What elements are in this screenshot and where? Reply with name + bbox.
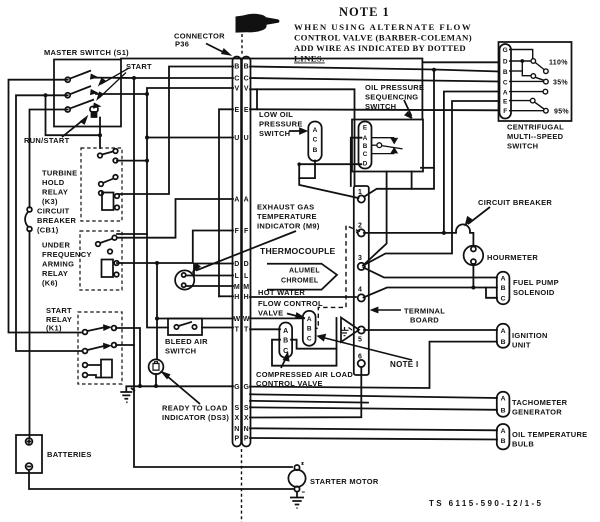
hourmeter xyxy=(464,246,484,266)
wire K1 contact to G wire ground xyxy=(116,328,140,386)
svg-text:UNDER: UNDER xyxy=(42,241,70,250)
svg-text:OIL TEMPERATURE: OIL TEMPERATURE xyxy=(512,430,587,439)
terminal 5 xyxy=(358,326,365,333)
dashed connector centerline top xyxy=(241,34,243,55)
wire P36 pin N to oil temperature bulb A xyxy=(250,428,497,430)
svg-text:SWITCH: SWITCH xyxy=(259,129,290,138)
terminal numbers 1-6 xyxy=(358,189,362,361)
svg-text:S: S xyxy=(234,405,239,412)
wire stub branch to sequencing switch box xyxy=(421,167,434,169)
svg-text:U: U xyxy=(244,135,249,142)
wire P36 pin B to centrifugal switch B xyxy=(250,67,499,72)
turbine hold relay K3 dashed box xyxy=(81,148,122,221)
low oil switch pins ACB xyxy=(313,127,318,154)
svg-text:F: F xyxy=(235,228,240,235)
svg-text:MULTI--SPEED: MULTI--SPEED xyxy=(507,132,564,141)
centrifugal pins GDBCAEF xyxy=(503,47,508,115)
svg-text:NOTE 1: NOTE 1 xyxy=(339,5,390,19)
svg-text:5: 5 xyxy=(358,337,362,344)
svg-text:A: A xyxy=(501,328,506,335)
K1 lower switch xyxy=(83,343,117,354)
K1 coil xyxy=(83,360,112,378)
svg-text:HOT WATER: HOT WATER xyxy=(258,288,305,297)
wire terminal 2 to circuit breaker xyxy=(364,232,456,234)
run/start key symbol xyxy=(90,107,98,118)
wire master pole1 to start relay K1 contact xyxy=(9,80,83,333)
terminal board label arrow xyxy=(372,308,401,312)
K3 lower switch xyxy=(99,175,118,196)
wire terminal 3 to fuel pump solenoid A xyxy=(364,268,498,278)
oil temp pins AB xyxy=(501,428,506,445)
wire centrifugal E down to terminal 3 xyxy=(363,101,499,266)
wire branch to fuel pump solenoid C xyxy=(486,288,497,298)
svg-text:T: T xyxy=(235,327,240,334)
terminal 4 xyxy=(358,294,365,301)
compressed valve pins ABC xyxy=(283,328,288,355)
start label arrows xyxy=(98,68,129,98)
svg-text:SOLENOID: SOLENOID xyxy=(513,288,555,297)
wire C bus down to starter motor plus xyxy=(134,78,292,467)
svg-text:C: C xyxy=(234,76,239,83)
wire terminal 4 to fuel pump solenoid B xyxy=(364,288,498,298)
wire pole2 contact to V bus xyxy=(96,93,147,95)
svg-text:110%: 110% xyxy=(549,60,568,67)
wire P36 pin T to compressed air valve A xyxy=(250,328,280,330)
svg-text:HOLD: HOLD xyxy=(42,178,65,187)
wire compressed air valve B loop xyxy=(272,318,337,366)
wire terminal 5 to ignition unit A xyxy=(364,329,497,331)
svg-text:TURBINE: TURBINE xyxy=(42,169,77,178)
svg-text:FUEL PUMP: FUEL PUMP xyxy=(513,278,559,287)
flow control valve connector xyxy=(303,311,316,346)
sequencing switch contacts xyxy=(372,138,403,154)
flow valve pins ABC xyxy=(307,316,312,342)
svg-text:E: E xyxy=(503,99,508,106)
svg-text:C: C xyxy=(307,335,312,342)
svg-text:CIRCUIT: CIRCUIT xyxy=(37,207,70,216)
svg-text:A: A xyxy=(234,197,239,204)
K3 coil xyxy=(102,193,119,211)
svg-text:B: B xyxy=(307,326,312,333)
K3 upper switch xyxy=(98,149,118,163)
svg-text:L: L xyxy=(235,273,240,280)
note 1 arrow xyxy=(318,335,412,360)
K6 switch xyxy=(96,235,117,253)
svg-text:BREAKER: BREAKER xyxy=(37,216,76,225)
svg-text:UNIT: UNIT xyxy=(512,341,531,350)
svg-text:LOW OIL: LOW OIL xyxy=(259,110,293,119)
svg-text:V: V xyxy=(244,86,249,93)
svg-text:N: N xyxy=(244,426,249,433)
svg-text:D: D xyxy=(244,261,249,268)
connector P38 left shell xyxy=(233,57,242,447)
svg-text:D: D xyxy=(503,59,508,66)
svg-text:95%: 95% xyxy=(554,109,569,116)
svg-text:BOARD: BOARD xyxy=(410,316,439,325)
svg-text:C: C xyxy=(501,296,506,303)
wire master switch top to centrifugal switch D xyxy=(121,59,499,120)
svg-text:6: 6 xyxy=(358,354,362,361)
svg-text:C: C xyxy=(313,137,318,144)
wire CB1 bottom to battery plus xyxy=(29,231,31,437)
under frequency arming relay K6 dashed box xyxy=(80,231,122,290)
svg-text:COMPRESSED AIR LOAD: COMPRESSED AIR LOAD xyxy=(256,370,353,379)
svg-text:P36: P36 xyxy=(175,40,189,49)
svg-text:A: A xyxy=(313,127,318,134)
svg-text:M: M xyxy=(243,284,249,291)
svg-text:TACHOMETER: TACHOMETER xyxy=(512,398,568,407)
wire P36 pin E down E bus xyxy=(219,109,233,296)
wire P36 pin D jog to thermocouple lead xyxy=(194,264,233,276)
terminal 5 ground pennant xyxy=(341,318,360,343)
svg-text:THERMOCOUPLE: THERMOCOUPLE xyxy=(260,246,336,256)
svg-text:E: E xyxy=(244,107,249,114)
terminal 3 xyxy=(358,263,365,270)
master switch pole 2 xyxy=(65,86,96,98)
svg-text:B: B xyxy=(234,64,239,71)
wire P36 pin H to E bus xyxy=(219,295,233,297)
svg-text:B: B xyxy=(501,438,506,445)
svg-text:W: W xyxy=(243,316,250,323)
starter motor ground xyxy=(290,492,304,508)
svg-text:LINES.: LINES. xyxy=(294,54,325,64)
svg-text:C: C xyxy=(363,151,368,158)
wire P36 pin P to oil temperature bulb B xyxy=(250,438,497,440)
svg-text:U: U xyxy=(234,135,239,142)
wire terminal 6 to P36 pin X xyxy=(250,367,361,418)
P36 pin letters right column xyxy=(243,64,250,443)
wire sequencing switch A to terminal board top xyxy=(351,138,362,186)
starter motor xyxy=(288,462,305,492)
P36 pin letters left column xyxy=(233,64,240,443)
svg-text:D: D xyxy=(234,261,239,268)
svg-text:P: P xyxy=(244,436,249,443)
svg-text:ADD WIRE AS INDICATED BY DOTTE: ADD WIRE AS INDICATED BY DOTTED xyxy=(294,43,466,53)
wire bleed air switch to P36 pin T xyxy=(202,327,233,329)
svg-text:(K1): (K1) xyxy=(46,323,62,332)
wire P36 pin V to terminal board top xyxy=(250,89,355,186)
svg-text:START: START xyxy=(126,62,152,71)
wire junction down to terminal 1 xyxy=(299,164,358,198)
wire circuit breaker to hourmeter top xyxy=(470,233,473,245)
batteries box xyxy=(16,435,42,473)
svg-text:X: X xyxy=(244,415,249,422)
svg-text:ALUMEL: ALUMEL xyxy=(289,268,320,275)
svg-text:F: F xyxy=(503,108,507,115)
svg-text:G: G xyxy=(234,384,240,391)
wire P36 pin G to ground at left xyxy=(126,385,233,387)
svg-text:NOTE I: NOTE I xyxy=(390,360,418,369)
svg-text:SWITCH: SWITCH xyxy=(165,347,196,356)
svg-text:B: B xyxy=(283,338,288,345)
svg-text:(K6): (K6) xyxy=(42,279,58,288)
run/start label arrow xyxy=(62,117,87,137)
ready to load label arrow xyxy=(163,373,201,405)
wire P36 pin U to V bus junction xyxy=(147,137,233,139)
svg-text:P: P xyxy=(234,436,239,443)
ready to load indicator DS3 xyxy=(149,359,164,374)
thermocouple xyxy=(175,270,194,289)
oil pressure sequencing switch box xyxy=(352,120,423,172)
wire hourmeter bottom down to fuel pump line xyxy=(472,264,474,288)
circuit breaker label arrow xyxy=(466,207,490,224)
terminal board xyxy=(354,186,369,375)
wire pole1 contact to P36 pin C xyxy=(94,77,233,79)
svg-text:TERMINAL: TERMINAL xyxy=(404,307,445,316)
svg-text:D: D xyxy=(363,160,368,167)
wire P36 pin L to thermocouple upper terminal xyxy=(186,275,233,277)
svg-text:RELAY: RELAY xyxy=(42,269,68,278)
svg-text:READY TO LOAD: READY TO LOAD xyxy=(162,404,228,413)
svg-text:B: B xyxy=(313,147,318,154)
svg-text:S: S xyxy=(244,405,249,412)
wire P36 pin S to tachometer generator B xyxy=(250,407,497,410)
svg-text:C: C xyxy=(244,76,249,83)
fuel pump pins ABC xyxy=(501,276,506,303)
svg-text:INDICATOR (DS3): INDICATOR (DS3) xyxy=(162,413,229,422)
sequencing switch label arrow xyxy=(404,100,412,118)
svg-text:CENTRIFUGAL: CENTRIFUGAL xyxy=(507,123,564,132)
svg-text:WHEN USING ALTERNATE FLOW: WHEN USING ALTERNATE FLOW xyxy=(294,22,471,32)
svg-text:G: G xyxy=(243,384,249,391)
wire K6 blade contact to V bus xyxy=(117,233,147,235)
wire DS3 bottom to G wire xyxy=(155,374,157,386)
wire P36 pin B to K3 coil xyxy=(118,67,233,195)
K6 coil xyxy=(102,260,119,278)
fuel pump solenoid connector xyxy=(497,272,510,304)
svg-text:(CB1): (CB1) xyxy=(37,226,59,235)
svg-text:START: START xyxy=(46,306,72,315)
centrifugal contacts xyxy=(509,50,548,113)
oil temperature bulb connector xyxy=(497,424,510,449)
svg-text:BATTERIES: BATTERIES xyxy=(47,450,92,459)
svg-text:B: B xyxy=(501,339,506,346)
svg-text:M: M xyxy=(234,284,240,291)
wire P36 row to tachometer generator A xyxy=(250,394,497,398)
wire battery minus to starter motor minus xyxy=(29,471,293,489)
wire centrifugal A down to breaker wire junction xyxy=(444,92,499,233)
low oil switch label arrow xyxy=(289,129,306,134)
svg-text:IGNITION: IGNITION xyxy=(512,331,548,340)
tachometer generator connector xyxy=(497,392,510,417)
K1 upper switch xyxy=(83,326,117,335)
svg-text:STARTER MOTOR: STARTER MOTOR xyxy=(310,477,379,486)
terminal 1 xyxy=(358,195,365,202)
wire P36 pin H to terminal 4 xyxy=(250,296,356,298)
wire P36 pin W to flow control valve A xyxy=(250,317,304,319)
svg-text:H: H xyxy=(244,294,249,301)
svg-text:W: W xyxy=(233,316,240,323)
wire sequencing switch bottom to terminal 3 xyxy=(363,172,387,266)
svg-text:C: C xyxy=(503,80,508,87)
svg-text:L: L xyxy=(244,273,249,280)
svg-text:EXHAUST GAS: EXHAUST GAS xyxy=(257,203,314,212)
wire master pole3 to circuit breaker CB1 top xyxy=(30,110,68,208)
svg-text:1: 1 xyxy=(358,189,362,196)
svg-text:OIL PRESSURE: OIL PRESSURE xyxy=(365,83,424,92)
wire master pole2 down to start relay K1 second contact xyxy=(16,95,82,351)
svg-text:C: C xyxy=(283,348,288,355)
svg-text:V: V xyxy=(234,86,239,93)
wire P36 pin F to K6 coil xyxy=(117,231,233,264)
pointing hand xyxy=(236,14,280,33)
dashed alternate valve wire from terminal 2 to flow valve B xyxy=(316,226,361,329)
svg-text:B: B xyxy=(501,285,506,292)
wire branch to run/start key node xyxy=(46,95,101,135)
master switch S1 box xyxy=(54,60,121,127)
svg-text:A: A xyxy=(501,276,506,283)
svg-text:BLEED AIR: BLEED AIR xyxy=(165,337,208,346)
ignition pins AB xyxy=(501,328,506,346)
compressed air load control valve connector xyxy=(279,323,292,358)
svg-text:VALVE: VALVE xyxy=(258,309,283,318)
wire junction right to sequencing switch D xyxy=(299,163,361,165)
svg-text:TEMPERATURE: TEMPERATURE xyxy=(257,212,317,221)
dashed connector centerline bottom xyxy=(241,449,243,522)
svg-text:T: T xyxy=(244,327,249,334)
svg-text:A: A xyxy=(307,316,312,323)
sequencing switch pins EABCD xyxy=(363,124,368,167)
wire V bridge to E row xyxy=(256,89,258,109)
svg-text:N: N xyxy=(234,426,239,433)
wire P36 pin M to thermocouple lower terminal xyxy=(186,285,233,287)
svg-text:CONTROL VALVE (BARBER-COLEMAN): CONTROL VALVE (BARBER-COLEMAN) xyxy=(294,33,472,43)
svg-text:PRESSURE: PRESSURE xyxy=(259,120,303,129)
svg-text:G: G xyxy=(503,47,508,54)
wire F bus to ready-to-load indicator DS3 top xyxy=(156,263,158,360)
svg-text:B: B xyxy=(501,408,506,415)
master switch pole 3 xyxy=(65,100,99,113)
svg-text:BULB: BULB xyxy=(512,440,534,449)
svg-text:ARMING: ARMING xyxy=(42,260,74,269)
svg-text:A: A xyxy=(501,428,506,435)
wire sequencing switch bottom to terminal 1 line xyxy=(411,172,413,189)
wire P36 pin V to bleed air switch via V bus xyxy=(147,88,233,328)
wire low oil pressure switch down-left jog xyxy=(299,161,315,179)
exhaust gas indicator arrow xyxy=(194,231,297,271)
terminal 6 xyxy=(358,360,365,367)
wire compressed air valve C link xyxy=(291,340,337,349)
svg-text:E: E xyxy=(234,107,239,114)
wire P36 pin A to K6 upper contact xyxy=(117,199,233,238)
circuit breaker (right) xyxy=(456,224,470,232)
wire P36 pin W to DS3 bus xyxy=(157,318,233,320)
svg-text:F: F xyxy=(244,228,249,235)
wire P36 pin C to centrifugal switch C xyxy=(250,78,499,82)
wire P36 pin E to centrifugal switch F xyxy=(250,109,499,110)
svg-text:A: A xyxy=(283,328,288,335)
wire K3 upper contact to V bus xyxy=(117,160,147,162)
svg-text:INDICATOR (M9): INDICATOR (M9) xyxy=(257,222,320,231)
svg-text:A: A xyxy=(503,90,508,97)
svg-text:B: B xyxy=(363,143,368,150)
master switch pole 1 xyxy=(65,71,96,83)
svg-text:RELAY: RELAY xyxy=(42,188,68,197)
sequencing switch connector strip xyxy=(359,122,372,169)
svg-text:A: A xyxy=(501,396,506,403)
ignition unit connector xyxy=(497,324,510,348)
wire ignition unit B to P36 pin G xyxy=(250,342,497,388)
svg-text:B: B xyxy=(503,69,508,76)
ground under G wire xyxy=(120,386,135,402)
svg-text:35%: 35% xyxy=(553,80,568,87)
svg-text:2: 2 xyxy=(358,223,362,230)
tachometer pins AB xyxy=(501,396,506,415)
connector P38 right shell xyxy=(242,57,251,447)
svg-text:SEQUENCING: SEQUENCING xyxy=(365,93,418,102)
centrifugal multi-speed switch box xyxy=(499,42,572,121)
circuit breaker CB1 xyxy=(25,207,32,231)
svg-text:FREQUENCY: FREQUENCY xyxy=(42,250,92,259)
centrifugal connector strip xyxy=(500,44,512,119)
svg-text:(K3): (K3) xyxy=(42,197,58,206)
svg-text:SWITCH: SWITCH xyxy=(365,102,396,111)
wire centrifugal B branch bus down to terminal 1 xyxy=(364,70,434,197)
low oil pressure switch connector xyxy=(308,122,321,162)
compressed valve label arrow xyxy=(281,354,289,368)
svg-text:CONTROL VALVE: CONTROL VALVE xyxy=(256,379,323,388)
wire run/start key to relay K3 xyxy=(99,118,101,149)
svg-text:H: H xyxy=(234,294,239,301)
svg-text:MASTER SWITCH (S1): MASTER SWITCH (S1) xyxy=(44,48,129,57)
bleed air switch box xyxy=(168,319,202,336)
svg-text:CHROMEL: CHROMEL xyxy=(281,278,319,285)
svg-text:3: 3 xyxy=(358,255,362,262)
svg-text:E: E xyxy=(363,124,367,131)
svg-text:HOURMETER: HOURMETER xyxy=(487,253,538,262)
svg-text:A: A xyxy=(363,135,368,142)
terminal 2 xyxy=(358,229,365,236)
svg-text:A: A xyxy=(244,197,249,204)
flow control valve label arrow xyxy=(287,314,303,319)
svg-text:GENERATOR: GENERATOR xyxy=(512,408,562,417)
svg-text:X: X xyxy=(234,415,239,422)
svg-text:SWITCH: SWITCH xyxy=(507,142,538,151)
alumel chromel banner xyxy=(267,264,337,290)
svg-text:4: 4 xyxy=(358,287,362,294)
connector label arrow xyxy=(206,44,230,55)
svg-text:TS 6115-590-12/1-5: TS 6115-590-12/1-5 xyxy=(429,499,543,508)
svg-text:FLOW CONTROL: FLOW CONTROL xyxy=(258,299,323,308)
svg-text:B: B xyxy=(244,64,249,71)
svg-text:CIRCUIT BREAKER: CIRCUIT BREAKER xyxy=(478,198,552,207)
svg-text:RUN/START: RUN/START xyxy=(24,136,70,145)
start relay K1 dashed box xyxy=(78,312,122,384)
wire spare row xyxy=(250,401,368,403)
